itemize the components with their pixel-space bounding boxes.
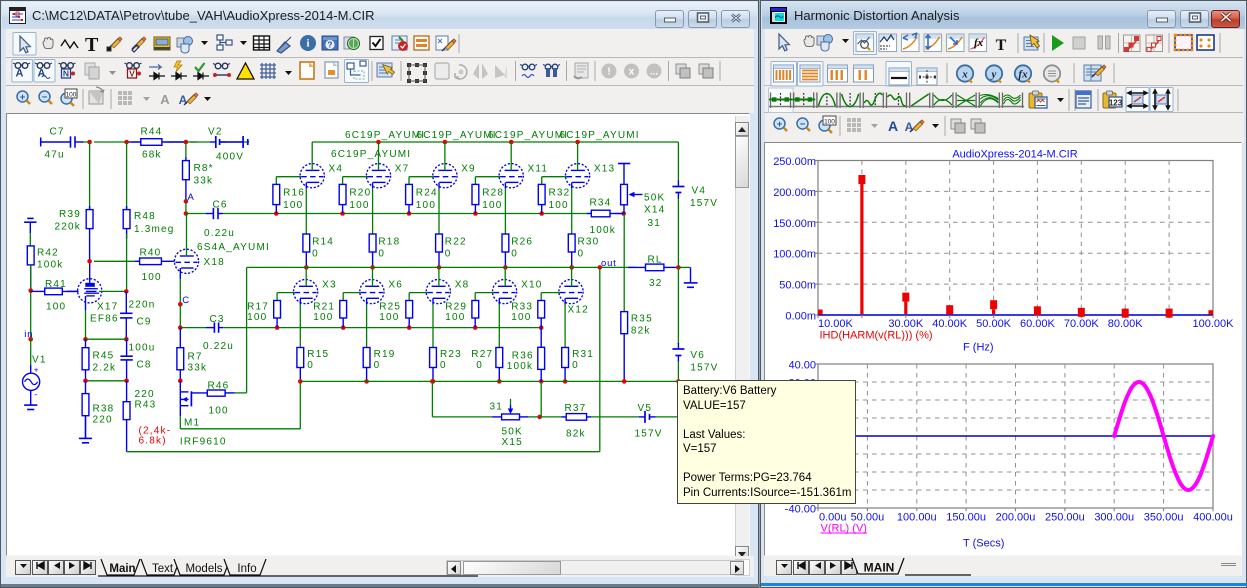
svg-text:R39: R39 — [59, 209, 81, 220]
resistor RL 32 — [628, 266, 646, 268]
wire: X6 grid from R21 — [343, 292, 361, 294]
svg-text:A: A — [16, 68, 24, 80]
svg-text:100: 100 — [482, 200, 502, 211]
svg-text:X14: X14 — [644, 205, 665, 216]
svg-text:R30: R30 — [578, 237, 600, 248]
capacitor C8 — [126, 339, 128, 356]
svg-text:0.22u: 0.22u — [204, 228, 235, 239]
svg-text:R46: R46 — [208, 381, 230, 392]
svg-text:IRF9610: IRF9610 — [180, 437, 227, 448]
svg-text:X7: X7 — [395, 164, 410, 175]
svg-text:−: − — [800, 119, 806, 130]
svg-text:R31: R31 — [572, 349, 594, 360]
wire: X4 anode — [311, 142, 313, 170]
resistor R34 — [586, 213, 591, 215]
wire: X17 grid from R41 — [67, 290, 79, 292]
resistor R18 0 — [372, 233, 374, 235]
svg-text:A: A — [38, 68, 46, 80]
svg-text:R16: R16 — [283, 188, 305, 199]
triode X12 6C19P_AYUMI — [559, 280, 583, 304]
wire: X13 anode — [577, 142, 579, 170]
svg-text:100u: 100u — [129, 343, 156, 354]
wire: X7 cathode to R18 — [372, 182, 374, 188]
wire: X10 grid from R29 — [475, 292, 493, 294]
svg-text:100: 100 — [313, 312, 333, 323]
svg-text:?: ? — [328, 41, 333, 50]
svg-text:0.00m: 0.00m — [785, 311, 816, 323]
resistor R27 0 — [498, 347, 500, 349]
svg-text:R26: R26 — [511, 237, 533, 248]
svg-text:50K: 50K — [502, 427, 523, 438]
wire: X8 grid from R25 — [409, 292, 427, 294]
wire: X12 cathode to R31 — [564, 298, 566, 304]
svg-text:Main: Main — [109, 563, 135, 575]
resistor R30 0 — [571, 233, 573, 235]
svg-text:100: 100 — [824, 118, 835, 125]
wire: X6 anode to bus2 — [372, 267, 374, 286]
svg-text:T: T — [996, 37, 1007, 54]
wire: feedback bottom wire R43 to out column — [127, 451, 600, 453]
node C — [178, 302, 183, 307]
resistor R16 100 — [275, 183, 277, 185]
capacitor C9 — [125, 291, 127, 313]
svg-text:A: A — [179, 93, 188, 107]
wire: R39 column — [89, 142, 91, 210]
triode X18 6S4A_AYUMI — [174, 249, 198, 273]
svg-text:6C19P_AYUMI: 6C19P_AYUMI — [417, 130, 497, 141]
battery V5 157V — [591, 416, 639, 418]
wire: R36 column riser to pot wire — [540, 381, 542, 417]
svg-text:0: 0 — [572, 360, 579, 371]
chart1 frame — [818, 161, 1213, 316]
svg-text:x: x — [629, 67, 635, 78]
svg-text:R27: R27 — [471, 349, 493, 360]
V(RL) sine — [1114, 382, 1213, 490]
svg-text:47u: 47u — [45, 150, 65, 161]
wire: X4 cathode to R14 — [305, 182, 307, 188]
svg-text:R17: R17 — [247, 302, 269, 313]
triode X9 6C19P_AYUMI — [433, 164, 457, 188]
svg-text:123: 123 — [1109, 99, 1123, 108]
svg-text:100: 100 — [445, 312, 465, 323]
svg-text:V2: V2 — [208, 127, 223, 138]
wire: X10 anode to bus2 — [504, 267, 506, 286]
junction dots on bus1 — [274, 211, 279, 216]
svg-text:y: y — [990, 69, 997, 81]
resistor R26 0 — [504, 233, 506, 235]
resistor R40 — [94, 260, 135, 262]
svg-text:220k: 220k — [55, 222, 82, 233]
resistor R31 0 — [564, 347, 566, 349]
svg-text:157V: 157V — [690, 363, 718, 374]
svg-text:R41: R41 — [45, 279, 67, 290]
svg-text:x: x — [961, 69, 968, 81]
svg-text:60.00K: 60.00K — [1020, 318, 1056, 330]
wire: X4 grid from R16 — [276, 176, 301, 178]
svg-text:250.00m: 250.00m — [773, 156, 816, 168]
wire: R46 to bus2 riser — [235, 392, 247, 394]
potentiometer X15 50K — [492, 416, 502, 418]
svg-text:X6: X6 — [388, 280, 403, 291]
resistor R43 — [126, 381, 128, 402]
svg-text:40.00K: 40.00K — [932, 318, 968, 330]
svg-text:R23: R23 — [440, 349, 462, 360]
svg-text:R35: R35 — [631, 314, 653, 325]
svg-text:R15: R15 — [307, 349, 329, 360]
svg-text:0: 0 — [378, 249, 385, 260]
svg-text:0: 0 — [578, 249, 585, 260]
wire: X3 grid from R17 — [277, 292, 295, 294]
svg-text:6.8k): 6.8k) — [139, 436, 167, 447]
svg-text:R20: R20 — [349, 188, 371, 199]
resistor R17 100 — [276, 300, 278, 302]
svg-text:M1: M1 — [184, 418, 200, 429]
svg-text:R37: R37 — [565, 403, 587, 414]
svg-text:31: 31 — [490, 402, 504, 413]
resistor R8* (33k) — [185, 142, 187, 157]
svg-text:+: + — [20, 92, 26, 103]
resistor R42 — [30, 245, 32, 247]
pentode X17 EF86 — [78, 279, 102, 303]
svg-text:C7: C7 — [50, 127, 65, 138]
svg-text:R28: R28 — [482, 188, 504, 199]
svg-text:V6: V6 — [690, 350, 705, 361]
svg-text:R22: R22 — [445, 237, 467, 248]
wire: anode rail of output tubes — [312, 141, 678, 143]
junction dots on grid bus — [275, 325, 280, 330]
mosfet M1 IRF9610 — [179, 381, 181, 392]
svg-text:out: out — [601, 258, 617, 269]
capacitor C3 — [206, 327, 214, 329]
svg-text:C8: C8 — [137, 360, 152, 371]
svg-text:50.00m: 50.00m — [779, 280, 816, 292]
resistor R39 — [89, 206, 91, 210]
svg-text:0: 0 — [440, 360, 447, 371]
triode X4 6C19P_AYUMI — [300, 164, 324, 188]
resistor R22 0 — [438, 233, 440, 235]
wire: X17 screen to C9 node — [99, 290, 126, 292]
wire: X9 cathode to R22 — [438, 182, 440, 188]
wire: grid bus C3 row — [180, 327, 206, 329]
svg-text:100: 100 — [549, 200, 569, 211]
svg-text:C3: C3 — [210, 314, 225, 325]
resistor R23 0 — [432, 347, 434, 349]
node A — [184, 199, 189, 204]
resistor R36 100k — [540, 328, 542, 348]
svg-text:32: 32 — [649, 278, 663, 289]
svg-text:IHD(HARM(v(RL))) (%): IHD(HARM(v(RL))) (%) — [820, 330, 933, 342]
svg-text:6C19P_AYUMI: 6C19P_AYUMI — [345, 130, 425, 141]
svg-text:100k: 100k — [507, 361, 534, 372]
svg-text:A: A — [188, 192, 195, 203]
svg-text:100: 100 — [416, 200, 436, 211]
triode X10 6C19P_AYUMI — [493, 280, 517, 304]
svg-text:100: 100 — [247, 312, 267, 323]
wire: R48 to C9 / screen node — [126, 234, 128, 291]
svg-text:400V: 400V — [216, 152, 244, 163]
svg-text:220: 220 — [93, 415, 113, 426]
svg-text:250.00u: 250.00u — [1045, 512, 1085, 524]
svg-text:X13: X13 — [594, 164, 615, 175]
svg-text:R25: R25 — [379, 302, 401, 313]
resistor R41 — [31, 290, 45, 292]
wire: cathode node to C9/C8 column — [86, 338, 127, 340]
svg-text:V4: V4 — [692, 186, 707, 197]
capacitor C7 — [40, 141, 70, 143]
wiper of X15 (node 31) — [510, 399, 512, 405]
resistor R28 100 — [474, 183, 476, 185]
svg-text:220: 220 — [135, 389, 155, 400]
svg-text:X4: X4 — [329, 164, 344, 175]
wire: X10 cathode to R27 — [498, 298, 500, 304]
svg-text:82k: 82k — [566, 429, 586, 440]
svg-text:100: 100 — [209, 406, 229, 417]
svg-text:C6: C6 — [213, 200, 228, 211]
left input rail — [30, 265, 32, 339]
ground under R38 — [85, 416, 87, 439]
junction dots on top rail — [87, 140, 92, 145]
wire: out feedback column — [599, 267, 601, 451]
svg-text:157V: 157V — [690, 198, 718, 209]
wire: X9 anode — [444, 142, 446, 170]
resistor R32 100 — [541, 183, 543, 185]
svg-text:R43: R43 — [135, 400, 157, 411]
resistor R24 100 — [408, 183, 410, 185]
svg-text:100.00m: 100.00m — [773, 249, 816, 261]
wire: X7 anode — [378, 142, 380, 170]
svg-text:300.00u: 300.00u — [1094, 512, 1134, 524]
svg-text:X9: X9 — [461, 164, 476, 175]
resistor R37 82k — [540, 416, 562, 418]
resistor R19 0 — [366, 347, 368, 349]
svg-text:fx: fx — [974, 37, 984, 49]
resistor R7 — [179, 328, 181, 348]
capacitor C6 — [206, 213, 213, 215]
wire: top supply rail C7-R44-V2 — [82, 141, 90, 143]
svg-text:X15: X15 — [502, 437, 523, 448]
svg-text:80.00K: 80.00K — [1108, 318, 1144, 330]
svg-text:X8: X8 — [455, 280, 470, 291]
resistor R44 — [128, 141, 141, 143]
svg-text:200.00m: 200.00m — [773, 187, 816, 199]
svg-text:in: in — [24, 329, 33, 340]
ground (inverted) above R42 — [27, 217, 33, 219]
V(RL) zero line — [818, 435, 1213, 437]
ground at RL — [678, 266, 690, 268]
svg-text:R34: R34 — [590, 198, 612, 209]
svg-text:70.00K: 70.00K — [1064, 318, 1100, 330]
svg-text:30.00K: 30.00K — [888, 318, 924, 330]
svg-text:N: N — [63, 69, 69, 79]
svg-text:R19: R19 — [374, 349, 396, 360]
tooltip battery V6 — [677, 380, 856, 504]
svg-text:100k: 100k — [590, 225, 617, 236]
triode X7 6C19P_AYUMI — [366, 164, 390, 188]
svg-text:0: 0 — [312, 249, 319, 260]
wire: X18 cathode to node C — [179, 268, 181, 279]
wire: X9 grid from R24 — [409, 176, 434, 178]
chart2 frame — [818, 364, 1213, 508]
svg-text:X17: X17 — [97, 302, 118, 313]
svg-text:0: 0 — [374, 360, 381, 371]
wire: X13 cathode to R30 — [571, 182, 573, 188]
resistor R15 0 — [299, 347, 301, 349]
wire: X11 grid from R28 — [475, 176, 500, 178]
wire: X17 cathode down — [85, 296, 87, 310]
svg-text:33k: 33k — [188, 363, 208, 374]
resistor R46 — [207, 390, 225, 396]
svg-text:X12: X12 — [568, 305, 589, 316]
wire: X12 grid from R33 — [541, 292, 560, 294]
wire: R45/C8 bottom link — [86, 380, 127, 382]
wire: X12 anode to bus2 — [571, 267, 573, 286]
svg-text:R36: R36 — [512, 351, 534, 362]
svg-text:6C19P_AYUMI: 6C19P_AYUMI — [331, 149, 411, 160]
svg-text:R33: R33 — [511, 302, 533, 313]
svg-text:100: 100 — [142, 272, 162, 283]
svg-text:R7: R7 — [188, 352, 203, 363]
svg-text:0: 0 — [445, 249, 452, 260]
svg-text:100.00u: 100.00u — [897, 512, 937, 524]
svg-text:R40: R40 — [140, 248, 162, 259]
triode X13 6C19P_AYUMI — [566, 164, 590, 188]
wire: pot X14 node down through bus2 to R35 — [623, 214, 625, 312]
svg-text:V1: V1 — [32, 355, 47, 366]
svg-text:R44: R44 — [141, 127, 163, 138]
svg-text:MAIN: MAIN — [864, 561, 895, 575]
svg-text:R45: R45 — [93, 351, 115, 362]
svg-text:350.00u: 350.00u — [1144, 512, 1184, 524]
svg-text:100: 100 — [511, 312, 531, 323]
svg-text:R24: R24 — [416, 188, 438, 199]
svg-text:A: A — [905, 120, 914, 134]
svg-text:157V: 157V — [635, 429, 663, 440]
wire: X11 cathode to R26 — [504, 182, 506, 188]
svg-text:X3: X3 — [322, 280, 337, 291]
svg-text:68k: 68k — [142, 150, 162, 161]
svg-text:i: i — [306, 38, 309, 50]
wire: M1 drain to cathode-bus left end — [179, 406, 181, 416]
svg-text:100: 100 — [283, 200, 303, 211]
svg-text:-40.00: -40.00 — [785, 504, 816, 516]
wire: X6 cathode to R19 — [366, 298, 368, 304]
svg-text:400.00u: 400.00u — [1193, 512, 1233, 524]
node in — [28, 337, 33, 342]
svg-text:-: - — [34, 390, 37, 400]
svg-text:F (Hz): F (Hz) — [963, 342, 994, 354]
svg-text:0: 0 — [511, 249, 518, 260]
svg-text:40.00: 40.00 — [788, 360, 816, 372]
svg-text:150.00m: 150.00m — [773, 218, 816, 230]
wire: X3 anode to bus2 — [305, 267, 307, 286]
triode X11 6C19P_AYUMI — [499, 164, 523, 188]
wire: bus2 out bus — [247, 266, 637, 268]
svg-text:+: + — [34, 366, 39, 375]
svg-text:50.00K: 50.00K — [976, 318, 1012, 330]
svg-text:0: 0 — [476, 360, 483, 371]
wire: R48 column — [126, 142, 128, 210]
wire: bus1 from node A to pot X14 — [186, 213, 206, 215]
svg-text:+: + — [777, 119, 783, 130]
svg-text:0: 0 — [307, 360, 314, 371]
ground under V1 — [30, 390, 32, 405]
svg-text:V: V — [129, 69, 135, 79]
wire: pot X15 left riser — [431, 381, 433, 417]
wire: X7 grid from R20 — [343, 176, 368, 178]
svg-text:R18: R18 — [378, 237, 400, 248]
svg-text:Text: Text — [152, 563, 174, 575]
svg-text:AudioXpress-2014-M.CIR: AudioXpress-2014-M.CIR — [952, 149, 1077, 161]
svg-text:R8*: R8* — [194, 163, 214, 174]
svg-text:50K: 50K — [644, 193, 665, 204]
triode X6 6C19P_AYUMI — [360, 280, 384, 304]
svg-text:C9: C9 — [137, 317, 152, 328]
resistor R35 — [623, 311, 625, 313]
svg-text:X18: X18 — [204, 257, 225, 268]
svg-text:R38: R38 — [93, 404, 115, 415]
svg-text:150.00u: 150.00u — [946, 512, 986, 524]
svg-text:R29: R29 — [445, 302, 467, 313]
svg-text:EF86: EF86 — [90, 314, 119, 325]
svg-text:6C19P_AYUMI: 6C19P_AYUMI — [488, 130, 568, 141]
svg-text:R14: R14 — [312, 237, 334, 248]
wire: X3 cathode to R15 — [299, 298, 301, 304]
svg-text:fx: fx — [1018, 69, 1028, 81]
svg-text:6C19P_AYUMI: 6C19P_AYUMI — [560, 130, 640, 141]
svg-text:100: 100 — [66, 91, 77, 98]
svg-text:31: 31 — [648, 218, 662, 229]
svg-text:100: 100 — [379, 312, 399, 323]
svg-text:R32: R32 — [549, 188, 571, 199]
svg-text:...: ... — [650, 67, 659, 78]
svg-text:R42: R42 — [37, 248, 59, 259]
wire: cathode bus3 — [300, 380, 678, 382]
svg-text:R21: R21 — [313, 302, 335, 313]
resistor R38 — [85, 381, 87, 394]
svg-text:−: − — [42, 92, 48, 103]
battery V2 — [190, 141, 210, 143]
wire: X18 anode to C6 node — [186, 214, 188, 257]
svg-text:200.00u: 200.00u — [996, 512, 1036, 524]
resistor R21 100 — [342, 300, 344, 302]
svg-text:10.00K: 10.00K — [818, 318, 854, 330]
wire: V5 right riser to bus3 — [677, 381, 679, 417]
potentiometer X14 50K — [618, 163, 630, 165]
svg-text:A: A — [888, 118, 898, 134]
svg-text:Info: Info — [237, 563, 256, 575]
svg-text:RL: RL — [648, 255, 663, 266]
svg-text:V5: V5 — [638, 403, 653, 414]
sine source V1 — [30, 339, 32, 365]
svg-text:T (Secs): T (Secs) — [963, 538, 1004, 550]
svg-text:1.3meg: 1.3meg — [134, 224, 175, 235]
svg-text:X11: X11 — [528, 164, 549, 175]
svg-text:6S4A_AYUMI: 6S4A_AYUMI — [197, 242, 270, 253]
svg-text:33k: 33k — [194, 176, 214, 187]
resistor R33 100 — [540, 300, 542, 302]
svg-text:Models: Models — [185, 563, 222, 575]
svg-text:!: ! — [607, 67, 610, 78]
svg-text:A: A — [160, 92, 170, 107]
svg-text:100k: 100k — [37, 260, 64, 271]
svg-text:X10: X10 — [521, 280, 542, 291]
svg-text:0.22u: 0.22u — [203, 341, 234, 352]
battery V4 157V — [677, 142, 679, 181]
wire: X8 anode to bus2 — [438, 267, 440, 286]
resistor R45 — [85, 339, 87, 348]
wire: X11 anode — [510, 142, 512, 170]
resistor R14 0 — [305, 233, 307, 235]
